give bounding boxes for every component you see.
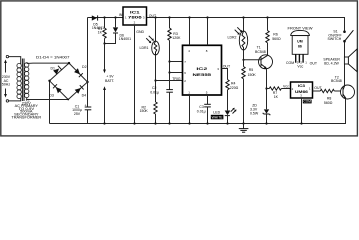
svg-text:Vcc: Vcc <box>297 64 303 68</box>
svg-text:50Hz: 50Hz <box>2 83 10 87</box>
svg-text:1N4001: 1N4001 <box>119 37 131 41</box>
svg-text:D2: D2 <box>82 65 87 69</box>
svg-text:D3: D3 <box>49 94 54 98</box>
svg-text:7806: 7806 <box>128 15 142 19</box>
svg-text:IC2: IC2 <box>196 67 207 71</box>
svg-text:560Ω: 560Ω <box>272 37 281 41</box>
svg-text:SWITCH: SWITCH <box>327 37 341 41</box>
svg-text:0.01µ: 0.01µ <box>197 109 206 113</box>
svg-text:+ 9V: + 9V <box>106 74 114 78</box>
svg-text:COM: COM <box>304 100 312 104</box>
svg-text:D1: D1 <box>50 66 55 70</box>
svg-text:OUT: OUT <box>310 62 318 66</box>
svg-text:IN: IN <box>119 13 123 17</box>
svg-text:0.5W: 0.5W <box>250 111 259 115</box>
svg-text:OUT: OUT <box>223 65 231 69</box>
svg-text:C2: C2 <box>152 86 157 90</box>
svg-text:R6: R6 <box>273 33 278 37</box>
svg-text:8Ω, 4.2W: 8Ω, 4.2W <box>324 61 339 65</box>
svg-text:TRIG: TRIG <box>172 77 181 81</box>
svg-text:TRANSFORMER: TRANSFORMER <box>11 115 41 119</box>
svg-text:150K: 150K <box>140 109 149 113</box>
svg-text:1K: 1K <box>274 95 279 99</box>
svg-text:0.01µ: 0.01µ <box>150 90 159 94</box>
svg-text:BC548: BC548 <box>255 50 266 54</box>
svg-text:D4: D4 <box>82 93 87 97</box>
svg-text:25V: 25V <box>74 112 81 116</box>
svg-text:R5: R5 <box>249 68 254 72</box>
svg-text:1K: 1K <box>98 31 103 35</box>
svg-text:LED: LED <box>213 111 220 115</box>
svg-text:IC3: IC3 <box>298 84 305 88</box>
svg-text:LDR1: LDR1 <box>140 46 149 50</box>
svg-text:Vcc: Vcc <box>283 85 289 89</box>
svg-text:560Ω: 560Ω <box>324 101 333 105</box>
svg-text:WHITE: WHITE <box>212 116 224 120</box>
svg-text:FRONT VIEW: FRONT VIEW <box>288 26 314 30</box>
svg-text:66: 66 <box>298 45 302 49</box>
svg-text:BATT.: BATT. <box>105 79 115 83</box>
svg-text:LDR2: LDR2 <box>228 36 237 40</box>
svg-text:NE555: NE555 <box>193 73 212 77</box>
svg-text:IC1: IC1 <box>130 10 140 14</box>
svg-text:GND: GND <box>136 30 144 34</box>
svg-text:+: + <box>85 104 87 108</box>
svg-text:BC548: BC548 <box>331 79 342 83</box>
svg-text:220Ω: 220Ω <box>230 86 239 90</box>
svg-text:D1-D4 = 1N4007: D1-D4 = 1N4007 <box>36 56 70 60</box>
svg-text:120K: 120K <box>172 36 181 40</box>
svg-text:COM: COM <box>286 61 294 65</box>
svg-text:UM: UM <box>297 39 303 43</box>
svg-text:R8: R8 <box>327 96 332 100</box>
svg-text:150K: 150K <box>248 73 257 77</box>
